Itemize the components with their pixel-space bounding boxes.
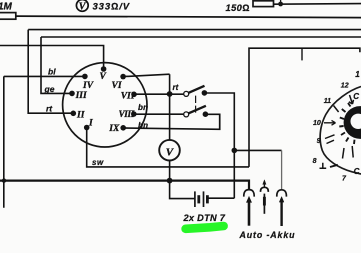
svg-text:rt: rt [46,103,53,113]
svg-text:10: 10 [313,120,321,127]
switch S2a output dot [202,90,208,96]
svg-text:150Ω: 150Ω [226,3,250,13]
resistor 150 Ohm [253,1,274,7]
switch S2a input contact [184,91,189,96]
dial tick below hub right [352,146,353,158]
contact V dot [101,66,107,72]
wire bl: left edge down and to contact IV [4,76,85,207]
wire battery plus side [207,197,234,199]
svg-text:IV: IV [82,81,94,91]
svg-text:Auto -Akku: Auto -Akku [239,230,296,240]
svg-text:bl: bl [48,66,56,76]
svg-text:9: 9 [317,138,321,145]
wire from 150 Ohm resistor to right edge [274,3,361,6]
dial tick below hub [343,148,345,159]
contact I dot [84,125,90,131]
connector plug 2 plug pin [263,194,265,214]
svg-text:7: 7 [342,176,347,183]
svg-text:sw: sw [92,158,104,167]
battery B1 cell plate short 2 [206,195,209,203]
wire branch to connector 3 [234,149,281,151]
svg-text:V: V [100,72,107,82]
svg-text:1: 1 [355,70,360,79]
meter line vertical (VI to battery minus) [170,74,195,198]
svg-text:bn: bn [138,103,148,112]
svg-text:VIII: VIII [119,109,135,119]
ground rail (battery minus) [0,181,249,190]
voltmeter symbol V (333 Ohm/V) [76,0,88,11]
wire contact IX to switch output b [123,114,220,129]
resistor R (1M, cut at left edge) [0,13,16,20]
svg-text:II: II [76,110,85,120]
wire rail 4 (net to contact V) [0,46,104,70]
svg-text:III: III [75,91,87,101]
wire sw: contact I down then right to net A [87,128,249,167]
contact IV dot [82,74,88,80]
svg-text:1M: 1M [0,2,13,13]
battery B1 cell plate long 1 [194,191,196,207]
junction dot on 150 Ohm wire [278,2,283,7]
connector plug 1 arrow [247,197,252,203]
dial tick at 8 position (plumb mark) [320,163,327,169]
svg-text:C: C [353,92,359,101]
wire top rail from 1M resistor to right edge [16,16,361,18]
connector plug 3 socket arc [277,190,287,197]
contact IX dot [120,125,126,131]
wire contact VII to switch pole a [134,93,184,95]
battery B1 cell plate short 1 [197,195,200,203]
contact II dot [71,111,77,117]
dial hub outer [344,106,361,139]
svg-text:IX: IX [108,124,120,134]
junction dot rail meter [167,178,173,184]
junction dot rt node [167,91,173,97]
wire switch S2a output right and down to battery plus [204,93,234,198]
dial tick arrow from 10 [324,120,336,125]
switch S2b output dot [203,111,209,117]
svg-text:C: C [354,167,360,176]
svg-text:333Ω/V: 333Ω/V [93,1,131,12]
dial hub spikes [339,103,354,144]
wire rail 3 (net ge / contact III) [41,37,361,93]
gray drop wire to connector 3 [281,150,283,189]
switch S2a blade [189,86,205,93]
connector plug 1 socket arc [244,190,254,197]
voltmeter V2 [159,140,180,161]
junction dot rail left [2,178,6,182]
connector plug 2 stub with arrow tip [263,182,265,188]
wire rail 2 (net rt / contact II) [28,30,361,114]
svg-text:rt: rt [173,83,179,92]
rotary switch S1 body [63,63,147,147]
switch S2b input contact [184,112,189,117]
selector dial body (right, cut off) [320,87,361,175]
connector plug 2 socket arc [260,187,268,192]
junction dot on battery plus line [232,148,238,154]
contact III dot [69,91,75,97]
switch coupling dashes [195,96,197,113]
dial tick from 11 [334,106,339,113]
connector plug 3 arrow [279,197,284,203]
svg-text:VI: VI [112,81,122,91]
dial dash near 7 [330,165,338,167]
dial hub hole [351,114,361,129]
green marker highlight [186,226,224,229]
svg-text:12: 12 [341,83,349,90]
contact VI dot [120,74,126,80]
svg-text:8: 8 [313,158,317,165]
wire net A vertical and top run to right edge [249,48,360,167]
svg-text:ge: ge [44,84,55,94]
svg-text:2x DTN 7: 2x DTN 7 [183,213,226,223]
battery B1 cell plate long 2 [203,191,205,207]
svg-text:VII: VII [121,92,135,102]
stub wire on net A [301,48,303,60]
wire contact VIII to switch pole b [134,113,184,115]
svg-text:I: I [88,119,93,129]
contact VIII dot [131,111,137,117]
switch S2b blade [189,106,206,114]
dial tick from 9 [325,135,335,144]
svg-text:11: 11 [324,98,331,105]
contact VII dot [131,92,137,98]
wire from contact VI to meter line [123,74,170,76]
dial arrow from top into hub [349,95,354,104]
